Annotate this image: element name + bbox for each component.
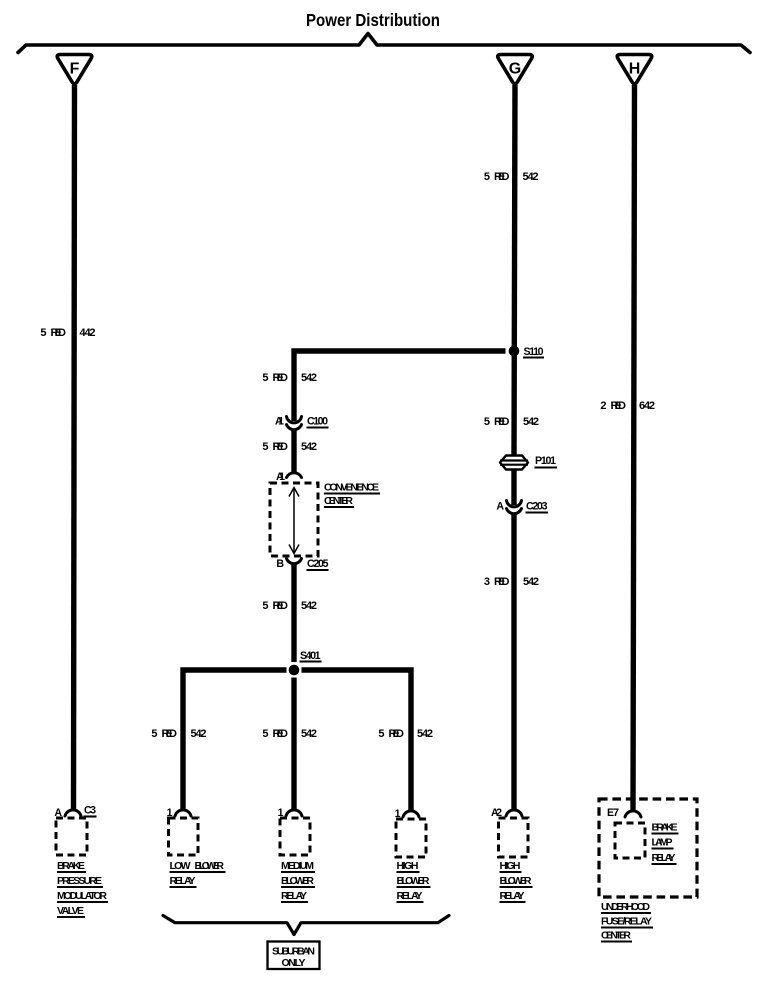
svg-text:542: 542 — [301, 728, 317, 740]
high blower relay box (suburban) — [396, 819, 426, 857]
svg-text:542: 542 — [301, 441, 317, 453]
svg-text:MEDIUM: MEDIUM — [281, 860, 314, 872]
brake pressure modulator valve box — [56, 818, 87, 855]
wire S401 bus — [183, 670, 287, 811]
svg-text:RED: RED — [494, 171, 510, 183]
svg-text:RED: RED — [162, 728, 178, 740]
high blower relay box — [499, 818, 529, 857]
svg-text:F: F — [70, 61, 80, 78]
svg-text:P101: P101 — [535, 455, 556, 467]
svg-text:542: 542 — [523, 576, 539, 588]
label high blower relay — [500, 860, 533, 902]
svg-text:CENTER: CENTER — [324, 495, 353, 507]
svg-text:542: 542 — [417, 728, 433, 740]
svg-text:RED: RED — [611, 400, 627, 412]
label brake lamp relay — [652, 822, 679, 865]
svg-text:442: 442 — [80, 327, 96, 339]
svg-text:VALVE: VALVE — [57, 905, 84, 917]
svg-text:H: H — [629, 61, 641, 78]
svg-text:ONLY: ONLY — [282, 957, 306, 969]
svg-text:FUSE/RELAY: FUSE/RELAY — [601, 916, 652, 928]
svg-text:5: 5 — [484, 171, 490, 183]
svg-text:BRAKE: BRAKE — [57, 860, 85, 872]
svg-text:LOW: LOW — [170, 860, 191, 872]
medium blower relay box — [280, 818, 310, 855]
svg-text:RED: RED — [273, 372, 289, 384]
terminal 1 medium blower relay — [278, 807, 302, 819]
svg-text:5: 5 — [262, 600, 268, 612]
svg-text:A: A — [496, 501, 504, 513]
svg-text:542: 542 — [191, 728, 207, 740]
svg-text:CONVENIENCE: CONVENIENCE — [324, 482, 379, 494]
svg-text:BLOWER: BLOWER — [500, 875, 532, 887]
wire G upper (5 RED 542) — [514, 85, 515, 456]
svg-text:RED: RED — [494, 576, 510, 588]
label underhood fuse/relay center — [601, 901, 653, 942]
svg-text:RED: RED — [273, 728, 289, 740]
wire S401 bus right — [302, 670, 412, 812]
bottom brace (suburban only) — [163, 916, 449, 935]
svg-text:542: 542 — [523, 171, 539, 183]
terminal A1 at convenience center — [276, 471, 302, 483]
connector C203 pin A — [496, 501, 548, 514]
underhood fuse/relay center box — [599, 799, 697, 897]
svg-text:RED: RED — [273, 600, 289, 612]
wire C100 to convenience center (5 RED 542) — [291, 429, 296, 474]
terminal A2 high blower relay — [491, 807, 522, 819]
wire C205 to S401 (5 RED 542) — [291, 563, 296, 662]
label medium blower relay — [281, 860, 315, 902]
svg-text:RED: RED — [273, 441, 289, 453]
wire middle branch — [291, 678, 296, 812]
svg-text:S401: S401 — [300, 650, 321, 662]
wire F (5 RED 442) — [74, 85, 75, 811]
svg-text:RELAY: RELAY — [397, 890, 423, 902]
svg-text:2: 2 — [600, 400, 606, 412]
svg-text:RELAY: RELAY — [281, 890, 307, 902]
svg-text:5: 5 — [484, 416, 490, 428]
svg-text:S110: S110 — [524, 346, 544, 358]
svg-text:RED: RED — [51, 327, 67, 339]
svg-text:RELAY: RELAY — [652, 852, 676, 864]
svg-text:C205: C205 — [307, 558, 329, 570]
svg-text:UNDERHOOD: UNDERHOOD — [601, 901, 650, 913]
wire H (2 RED 642) — [633, 85, 635, 812]
svg-text:RED: RED — [389, 728, 405, 740]
svg-text:BLOWER: BLOWER — [281, 875, 314, 887]
svg-text:542: 542 — [301, 600, 317, 612]
svg-text:5: 5 — [262, 728, 268, 740]
terminal A / connector C3 — [54, 805, 96, 820]
svg-text:5: 5 — [151, 728, 157, 740]
svg-text:PRESSURE: PRESSURE — [57, 875, 102, 887]
svg-text:BRAKE: BRAKE — [652, 822, 678, 834]
svg-text:E7: E7 — [607, 807, 619, 819]
wire G lower (3 RED 542) — [511, 513, 516, 811]
svg-text:5: 5 — [262, 441, 268, 453]
brake lamp relay box — [615, 823, 645, 858]
svg-text:B: B — [276, 558, 284, 570]
svg-text:BLOWER: BLOWER — [397, 875, 430, 887]
svg-text:RELAY: RELAY — [170, 875, 196, 887]
wire branch from S110 to C100 — [294, 351, 506, 421]
svg-text:CENTER: CENTER — [601, 930, 631, 942]
svg-text:MODULATOR: MODULATOR — [57, 890, 107, 902]
svg-text:5: 5 — [378, 728, 384, 740]
label brake pressure modulator valve — [57, 860, 108, 917]
grommet P101 — [500, 455, 557, 470]
terminal 1 low blower relay — [167, 807, 191, 819]
low blower relay box — [169, 818, 199, 855]
wire G between P101 and C203 — [511, 468, 516, 505]
svg-text:C100: C100 — [307, 416, 328, 428]
svg-text:SUBURBAN: SUBURBAN — [272, 946, 315, 958]
svg-text:542: 542 — [301, 372, 317, 384]
connector C205 pin B — [276, 558, 328, 570]
svg-text:C3: C3 — [84, 805, 96, 817]
svg-text:A1: A1 — [276, 471, 285, 483]
svg-text:G: G — [509, 61, 521, 78]
connector G (triangle) — [498, 55, 533, 84]
label low blower relay — [170, 860, 226, 887]
convenience center box — [270, 482, 380, 557]
svg-text:RELAY: RELAY — [500, 890, 525, 902]
suburban only box — [268, 942, 320, 970]
svg-text:HIGH: HIGH — [397, 860, 419, 872]
top brace — [18, 34, 750, 53]
svg-text:HIGH: HIGH — [500, 860, 521, 872]
svg-text:LAMP: LAMP — [652, 837, 673, 849]
connector C100 pin A1 — [275, 416, 329, 430]
svg-text:642: 642 — [639, 400, 655, 412]
svg-text:A1: A1 — [275, 416, 284, 428]
svg-text:Power Distribution: Power Distribution — [306, 10, 440, 30]
svg-text:5: 5 — [262, 372, 268, 384]
svg-text:RED: RED — [494, 416, 510, 428]
arrow inside convenience center — [289, 488, 299, 554]
splice S110 — [509, 346, 520, 357]
svg-text:BLOWER: BLOWER — [195, 860, 225, 872]
svg-text:3: 3 — [484, 576, 490, 588]
svg-text:C203: C203 — [526, 501, 548, 513]
connector H (triangle) — [617, 55, 652, 84]
svg-text:542: 542 — [523, 416, 539, 428]
label high blower relay (suburban) — [397, 860, 431, 902]
terminal 1 high blower relay (suburban) — [395, 808, 419, 820]
svg-text:5: 5 — [40, 327, 46, 339]
terminal E7 — [607, 807, 641, 819]
connector F (triangle) — [57, 55, 92, 84]
